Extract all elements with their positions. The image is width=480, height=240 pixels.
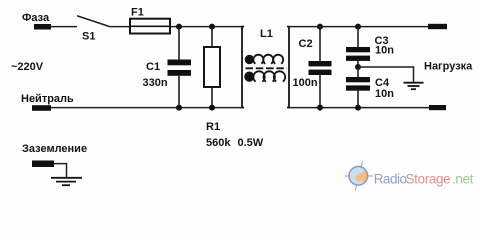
terminal: Заземление bbox=[32, 161, 54, 168]
terminal: Нейтраль input bbox=[32, 105, 51, 111]
node: C3 top junction bbox=[355, 24, 361, 30]
node: C1 top junction bbox=[176, 24, 182, 30]
node: R1 bottom junction bbox=[209, 105, 215, 111]
svg-text:10n: 10n bbox=[375, 45, 394, 57]
terminal: load bottom bbox=[429, 105, 446, 110]
logo icon: RadioStorage compass bbox=[345, 162, 374, 191]
svg-text:Storage: Storage bbox=[406, 172, 451, 187]
svg-text:Radio: Radio bbox=[374, 172, 407, 187]
node: R1 top junction bbox=[209, 24, 215, 30]
svg-text:C2: C2 bbox=[299, 38, 313, 50]
L1 top winding bbox=[246, 55, 284, 64]
wire: fuse to L1 top bbox=[170, 26, 244, 28]
node: C1 bottom junction bbox=[176, 105, 182, 111]
node: C2 top junction bbox=[317, 24, 323, 30]
svg-text:~220V: ~220V bbox=[11, 61, 44, 73]
wire: L1 bottom to load bbox=[289, 107, 430, 109]
wire: phase terminal to switch bbox=[51, 26, 77, 28]
capacitor C3 bbox=[346, 27, 370, 67]
svg-text:S1: S1 bbox=[82, 31, 95, 43]
node: C3/C4 junction bbox=[355, 64, 361, 70]
switch S1 blade bbox=[77, 16, 109, 27]
fuse F1 bbox=[130, 19, 170, 34]
wire: C3/C4 junction to chassis ground bbox=[358, 67, 414, 82]
ground symbol (earth) bbox=[51, 178, 82, 185]
logo text RadioStorage.net bbox=[374, 172, 474, 187]
svg-text:F1: F1 bbox=[131, 7, 144, 19]
svg-text:L1: L1 bbox=[260, 28, 273, 40]
svg-text:Заземление: Заземление bbox=[22, 143, 87, 155]
svg-text:10n: 10n bbox=[375, 88, 394, 100]
wire: switch to fuse bbox=[109, 26, 130, 28]
terminal: Фаза input bbox=[34, 24, 51, 30]
L1 core (dashed) bbox=[246, 67, 288, 69]
ground symbol (near load) bbox=[404, 83, 424, 90]
L1 bottom winding bbox=[245, 71, 285, 81]
L1 left rail bbox=[242, 27, 244, 108]
wire: earth terminal to ground symbol bbox=[54, 164, 67, 178]
capacitor C2 bbox=[309, 27, 332, 108]
svg-text:560k0.5W: 560k0.5W bbox=[206, 137, 264, 149]
svg-text:Фаза: Фаза bbox=[22, 12, 50, 24]
node: C2 bottom junction bbox=[317, 105, 323, 111]
svg-text:R1: R1 bbox=[206, 121, 220, 133]
svg-text:330n: 330n bbox=[143, 77, 168, 89]
capacitor C1 bbox=[168, 27, 192, 108]
node: C4 bottom junction bbox=[355, 105, 361, 111]
svg-text:Нейтраль: Нейтраль bbox=[21, 93, 74, 105]
svg-text:100n: 100n bbox=[293, 77, 318, 89]
terminal: load top bbox=[428, 24, 447, 29]
resistor R1 bbox=[204, 27, 220, 108]
wire: neutral to L1 bottom bbox=[51, 107, 244, 109]
capacitor C4 bbox=[346, 67, 370, 108]
svg-text:.net: .net bbox=[452, 172, 474, 187]
svg-text:C1: C1 bbox=[146, 61, 160, 73]
svg-text:Нагрузка: Нагрузка bbox=[424, 60, 473, 72]
L1 right rail bbox=[287, 27, 289, 108]
inductor L1 common-mode choke bbox=[242, 27, 289, 108]
wire: L1 to load (top) bbox=[289, 26, 430, 28]
